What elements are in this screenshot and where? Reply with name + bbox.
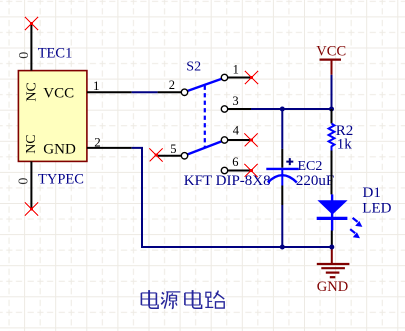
LED D1 light arrow 1 xyxy=(353,218,363,227)
value 1k xyxy=(337,137,353,153)
switch contact circle S2.5 xyxy=(181,153,187,159)
char 源 xyxy=(161,292,180,309)
pin 1 of S2 xyxy=(228,77,252,79)
pin 6 of S2 xyxy=(228,170,252,172)
pin 2 of R2 / wire to D1 xyxy=(331,151,333,195)
switch contact circle S2.1 xyxy=(221,74,227,80)
designator TEC1 xyxy=(38,46,73,62)
switch S2 comment KFT DIP-8X8 xyxy=(184,173,271,189)
LED D1 light arrow 2 xyxy=(350,229,360,238)
wire VCC to node xyxy=(331,75,333,109)
junction node at VCC/R2 xyxy=(329,107,334,112)
svg-text:VCC: VCC xyxy=(316,44,346,60)
capacitor EC2 top plate xyxy=(266,168,299,170)
switch contact circle S2.3 xyxy=(221,106,227,112)
title text 电源电路 (drawn strokes) xyxy=(141,290,224,309)
pin number 4 of S2 xyxy=(233,123,240,137)
pin number 6 of S2 xyxy=(232,155,238,169)
svg-text:0: 0 xyxy=(17,52,32,59)
pin 1 of TEC1 (VCC) xyxy=(87,91,132,93)
pin number 1 of S2 xyxy=(233,63,239,77)
no-ERC marker on S2 pin 4 xyxy=(245,133,258,146)
power port VCC xyxy=(316,44,346,75)
switch contact circle S2.6 xyxy=(221,167,227,173)
svg-text:1: 1 xyxy=(233,63,239,77)
svg-text:2: 2 xyxy=(169,78,175,92)
switch gang link (dashed) xyxy=(204,86,206,148)
svg-text:S2: S2 xyxy=(186,59,201,74)
no-ERC marker on S2 pin 6 xyxy=(245,164,258,177)
LED D1 triangle xyxy=(317,200,347,214)
svg-text:TYPEC: TYPEC xyxy=(38,171,84,187)
wire bottom GND rail xyxy=(141,246,332,248)
pin 2 of TEC1 (GND) xyxy=(87,147,132,149)
pin number 1 of TEC1 xyxy=(93,78,100,93)
pin 3 of S2 xyxy=(228,108,251,110)
svg-text:NC: NC xyxy=(24,82,39,101)
wire TEC1.2 down xyxy=(132,148,142,247)
capacitor EC2 stem xyxy=(281,169,283,186)
pin 2 of S2 xyxy=(158,91,182,93)
pin name GND (pin 2) xyxy=(43,141,76,157)
designator D1 xyxy=(363,185,381,201)
pin name NC (top pin) xyxy=(24,82,39,101)
wire EC2 to GND rail xyxy=(281,205,283,247)
comment TYPEC xyxy=(38,171,84,187)
pin (TEC1 top NC pin) xyxy=(30,24,32,71)
power ground GND xyxy=(317,247,350,277)
char 电 (1) xyxy=(141,290,158,308)
pin 4 of S2 xyxy=(228,139,252,141)
svg-text:3: 3 xyxy=(232,94,238,108)
svg-text:EC2: EC2 xyxy=(298,159,323,174)
wire S2.3 to VCC node xyxy=(251,108,332,110)
pin name NC (bottom pin) xyxy=(24,134,39,153)
svg-text:GND: GND xyxy=(43,141,76,157)
no-ERC marker on TEC1 top pin xyxy=(25,17,38,30)
svg-text:6: 6 xyxy=(232,155,238,169)
capacitor EC2 plus sign xyxy=(286,158,293,165)
char 路 xyxy=(205,291,224,309)
svg-text:220uF: 220uF xyxy=(296,173,334,189)
junction node at GND rail / D1 xyxy=(329,245,334,250)
svg-text:1: 1 xyxy=(93,78,100,93)
svg-text:VCC: VCC xyxy=(43,85,74,101)
comment LED xyxy=(362,200,391,216)
capacitor EC2 bottom plate (arc) xyxy=(268,175,297,182)
svg-text:TEC1: TEC1 xyxy=(38,46,73,62)
connector J TEC1 body xyxy=(18,71,87,162)
switch S2 designator xyxy=(186,59,201,74)
net label 0 (top) xyxy=(17,52,32,59)
no-ERC marker on S2 pin 5 xyxy=(150,148,163,161)
LED D1 stem xyxy=(331,194,333,230)
pin (TEC1 bottom NC pin) xyxy=(30,161,32,209)
LED D1 cathode bar xyxy=(317,217,348,220)
svg-text:LED: LED xyxy=(362,200,391,216)
svg-text:KFT DIP-8X8: KFT DIP-8X8 xyxy=(184,173,271,189)
no-ERC marker on S2 pin 1 xyxy=(245,71,258,84)
pin 5 of S2 xyxy=(157,155,182,157)
switch lever S2 pole A xyxy=(187,79,222,91)
svg-text:D1: D1 xyxy=(363,185,381,201)
pin 1 of EC2 xyxy=(281,149,283,168)
designator R2 xyxy=(336,123,354,139)
value 220uF xyxy=(296,173,334,189)
svg-text:4: 4 xyxy=(233,123,240,137)
designator EC2 xyxy=(298,159,323,174)
pin 2 of D1 / wire to GND rail xyxy=(331,231,333,248)
resistor R2 zigzag xyxy=(329,124,335,151)
svg-text:5: 5 xyxy=(170,142,176,156)
char 电 (2) xyxy=(185,290,202,308)
net label 0 (bottom) xyxy=(17,178,32,185)
pin 2 of EC2 xyxy=(281,186,283,206)
wire TEC1.1 to S2.2 xyxy=(132,91,158,93)
svg-text:1k: 1k xyxy=(337,137,353,153)
pin name VCC (pin 1) xyxy=(43,85,74,101)
net label GND xyxy=(317,279,348,295)
pin number 3 of S2 xyxy=(232,94,238,108)
wire node to EC2 xyxy=(281,109,283,149)
junction node at GND rail / EC2 xyxy=(280,245,285,250)
svg-text:0: 0 xyxy=(17,178,32,185)
pin 1 of R2 xyxy=(331,109,333,124)
pin number 5 of S2 xyxy=(170,142,176,156)
pin number 2 of S2 xyxy=(169,78,175,92)
switch contact circle S2.4 xyxy=(221,137,227,143)
no-ERC marker on TEC1 bottom pin xyxy=(25,202,38,215)
svg-text:NC: NC xyxy=(24,134,39,153)
switch lever S2 pole B xyxy=(187,141,222,154)
svg-text:GND: GND xyxy=(317,279,348,295)
junction node at EC2 top xyxy=(280,107,285,112)
pin number 2 of TEC1 xyxy=(94,135,101,150)
switch contact circle S2.2 xyxy=(181,89,187,95)
